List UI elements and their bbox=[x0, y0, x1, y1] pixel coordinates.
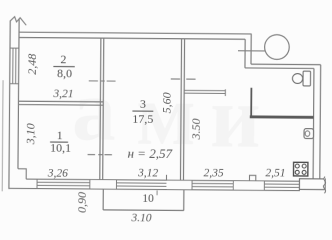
pier P2 bbox=[167, 181, 192, 190]
opening dashed room3-kitchen bbox=[171, 78, 198, 80]
svg-text:0,90: 0,90 bbox=[75, 192, 89, 213]
wc top wall bbox=[251, 63, 321, 66]
svg-text:3.10: 3.10 bbox=[130, 212, 151, 224]
wc left wall bbox=[250, 88, 252, 117]
svg-text:2: 2 bbox=[60, 52, 66, 66]
svg-text:н = 2,57: н = 2,57 bbox=[127, 146, 172, 161]
window W1 room1 bbox=[37, 181, 90, 183]
svg-text:10: 10 bbox=[142, 193, 154, 205]
window W3 kitchen bbox=[192, 183, 233, 185]
svg-text:8,0: 8,0 bbox=[57, 66, 72, 80]
window W-left room2 bbox=[10, 47, 19, 49]
svg-text:3,12: 3,12 bbox=[137, 167, 158, 179]
tick at 3,12 / 2,35 boundary bbox=[165, 175, 167, 180]
opening dashed room2-room3 bbox=[89, 80, 116, 82]
room 1 label bbox=[50, 128, 71, 155]
window W2 room3 bbox=[116, 182, 166, 184]
wc bottom wall bbox=[250, 115, 314, 118]
break symbol bottom-right bbox=[323, 177, 325, 194]
wire: stray dimension line left edge bbox=[1, 80, 4, 191]
bottom-left step bbox=[18, 169, 26, 179]
svg-text:10,1: 10,1 bbox=[50, 141, 71, 155]
bottom-right wall block bbox=[299, 179, 325, 190]
tick right of balcony label bbox=[156, 190, 158, 195]
left outer wall bbox=[9, 21, 10, 189]
stub wall top right bbox=[250, 34, 252, 64]
svg-text:3,21: 3,21 bbox=[52, 88, 73, 100]
svg-text:3,26: 3,26 bbox=[47, 168, 68, 180]
balcony bbox=[102, 189, 104, 210]
interior wall rooms 1-2 bbox=[18, 100, 103, 103]
svg-text:а: а bbox=[72, 62, 117, 159]
interior wall 1 (rooms 2,1 / room 3) bbox=[100, 38, 101, 180]
pier P3 bbox=[234, 181, 264, 190]
watermark bbox=[72, 62, 262, 166]
toilet bbox=[292, 74, 302, 84]
vent circle bbox=[265, 35, 290, 60]
pier P1 bbox=[90, 180, 117, 189]
svg-text:2,35: 2,35 bbox=[204, 167, 224, 179]
window W4 kitchen bbox=[264, 183, 299, 185]
svg-text:5,60: 5,60 bbox=[159, 92, 173, 113]
kitchen partition bbox=[184, 89, 225, 91]
svg-text:2,51: 2,51 bbox=[265, 167, 285, 179]
top outer wall bbox=[19, 32, 252, 34]
break symbol top-left bbox=[10, 17, 26, 26]
right outer wall bbox=[319, 65, 322, 179]
svg-text:3: 3 bbox=[140, 97, 146, 111]
svg-text:17,5: 17,5 bbox=[132, 112, 153, 126]
sink bbox=[304, 129, 313, 139]
bottom wall inner face bbox=[26, 179, 299, 181]
opening dashed room1-room3 bbox=[88, 154, 114, 156]
svg-text:3,10: 3,10 bbox=[23, 123, 37, 145]
interior wall 2 (room 3 / kitchen) bbox=[180, 39, 181, 181]
room 3 label bbox=[132, 97, 153, 126]
svg-text:2,48: 2,48 bbox=[25, 54, 39, 75]
room 2 label bbox=[57, 52, 72, 80]
bottom wall outer face bbox=[9, 188, 300, 190]
svg-text:3.50: 3.50 bbox=[189, 118, 203, 140]
notch on pier P3 bbox=[249, 175, 255, 181]
stove bbox=[294, 162, 308, 176]
wire: leader to circle bbox=[238, 50, 265, 52]
